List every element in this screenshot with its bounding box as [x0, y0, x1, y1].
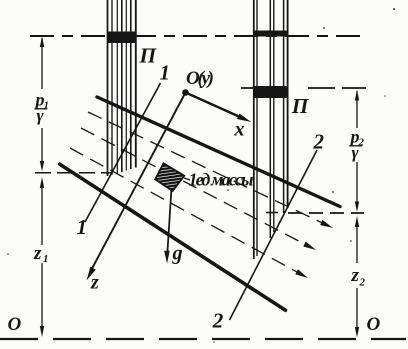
z axis [92, 93, 186, 270]
svg-text:O: O [367, 314, 381, 335]
svg-text:g: g [172, 243, 183, 265]
arrow up start of z2 [355, 216, 359, 227]
right tube piezometric level line [241, 87, 288, 89]
unit mass element (hatched square) [155, 163, 184, 191]
left dimension line p1/gamma + z1 [41, 38, 43, 327]
svg-text:z: z [33, 243, 42, 264]
left piezometer tube [108, 0, 136, 176]
right tube meniscus [253, 31, 288, 37]
svg-text:x: x [234, 119, 245, 141]
svg-text:1: 1 [44, 100, 50, 112]
svg-text:z: z [90, 272, 99, 294]
arrow down at section-1 level [40, 161, 44, 172]
section line 1-1 [85, 83, 161, 222]
svg-text:O(y): O(y) [186, 68, 214, 89]
svg-text:2: 2 [212, 309, 224, 333]
svg-text:2: 2 [359, 277, 366, 289]
arrow down at datum [40, 326, 44, 337]
datum line O-O [0, 338, 406, 340]
svg-text:1: 1 [77, 215, 88, 239]
right piezometer tube [254, 0, 288, 259]
section line 2-2 [230, 150, 318, 320]
gravity vector g [168, 188, 172, 251]
leader to label [184, 178, 190, 180]
section-1 elevation dash line [35, 172, 111, 174]
streamline S2 arrowhead [303, 242, 316, 251]
svg-text:1ед массы: 1ед массы [189, 170, 254, 190]
right dimension line p2/gamma + z2 [356, 91, 358, 328]
svg-text:П: П [139, 43, 158, 67]
top piezometric level line (left tube level) [30, 35, 367, 37]
g arrowhead [164, 251, 170, 264]
svg-text:1: 1 [43, 253, 49, 265]
streamline S1 [88, 112, 324, 224]
section-2 elevation dash line [288, 212, 364, 214]
x axis arrowhead [237, 114, 251, 123]
streamline S1 arrowhead [320, 220, 333, 228]
svg-text:z: z [351, 265, 360, 286]
streamline S3 arrowhead [295, 269, 308, 278]
svg-text:γ: γ [37, 106, 45, 125]
streamline S2 [81, 128, 307, 245]
arrow up at top level [40, 37, 44, 48]
arrow down at datum right [355, 327, 359, 338]
origin point [182, 89, 189, 96]
z axis arrowhead [87, 267, 96, 281]
arrow down at section-2 level [355, 202, 359, 213]
upper flow boundary (thick line) [97, 97, 340, 207]
svg-text:2: 2 [313, 130, 325, 154]
arrow up at right level [355, 90, 359, 101]
svg-text:O: O [8, 314, 22, 335]
svg-text:γ: γ [352, 143, 360, 162]
svg-text:1: 1 [160, 61, 171, 85]
arrow up start of z1 [40, 177, 44, 188]
streamline S3 [70, 148, 299, 273]
svg-text:П: П [291, 94, 310, 118]
x axis [186, 93, 241, 118]
left tube meniscus [107, 32, 136, 44]
lower flow boundary (thick line) [60, 164, 286, 310]
